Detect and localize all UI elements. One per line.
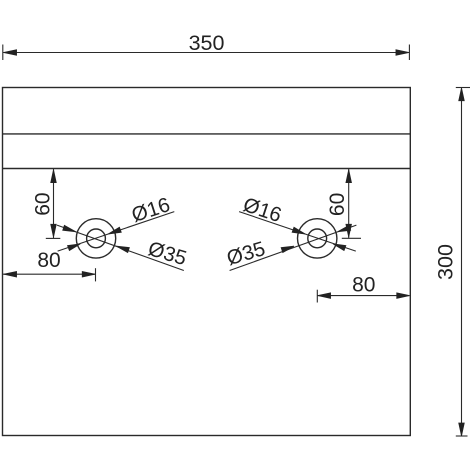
svg-text:60: 60 bbox=[31, 192, 54, 215]
svg-text:300: 300 bbox=[434, 244, 458, 280]
svg-text:350: 350 bbox=[189, 31, 225, 55]
svg-text:60: 60 bbox=[326, 193, 349, 216]
svg-text:80: 80 bbox=[37, 249, 60, 272]
svg-text:80: 80 bbox=[352, 273, 375, 296]
